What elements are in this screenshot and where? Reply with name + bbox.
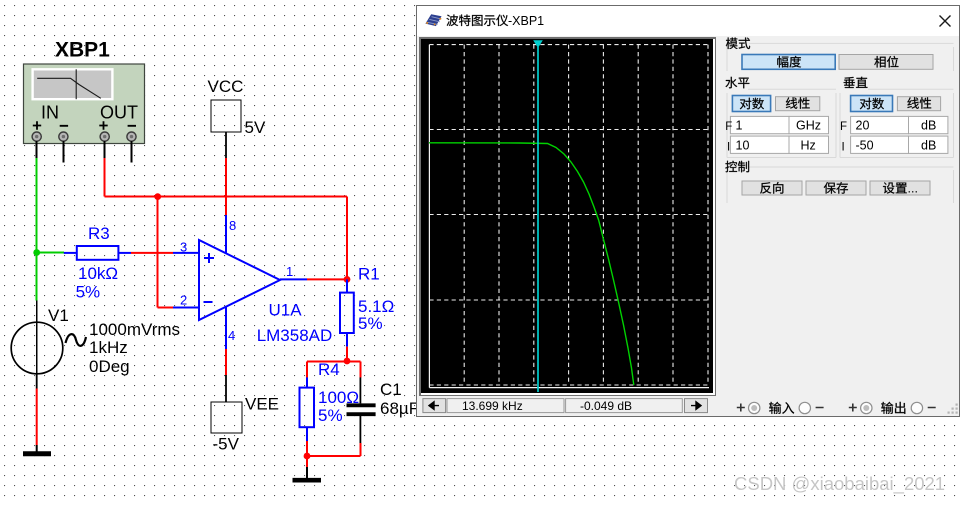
svg-text:XBP1: XBP1 — [55, 39, 110, 62]
wire pin3 — [173, 252, 199, 254]
svg-text:5V: 5V — [245, 118, 266, 137]
wire pin2 — [173, 307, 199, 309]
svg-text:dB: dB — [921, 138, 936, 152]
wire R4 C1 top net — [307, 361, 360, 377]
wire feedback net — [105, 158, 347, 308]
svg-text:4: 4 — [228, 328, 235, 343]
svg-text:0Deg: 0Deg — [89, 357, 130, 376]
AC source V1 — [11, 301, 86, 375]
wire — [64, 252, 77, 254]
capacitor C1 — [347, 377, 376, 443]
svg-text:5.1Ω: 5.1Ω — [358, 297, 394, 316]
svg-text:1: 1 — [286, 264, 293, 279]
svg-text:3: 3 — [180, 240, 187, 255]
node junction — [344, 276, 351, 283]
svg-text:F: F — [725, 121, 732, 133]
instrument window — [416, 0, 962, 6]
svg-text:8: 8 — [229, 218, 236, 233]
svg-text:Hz: Hz — [801, 138, 816, 152]
svg-text:GHz: GHz — [796, 119, 821, 133]
node junction — [154, 193, 161, 200]
value 5.1Ohm 5% — [358, 297, 394, 333]
svg-text:OUT: OUT — [100, 103, 138, 123]
svg-text:-0.049 dB: -0.049 dB — [580, 399, 632, 413]
svg-text:68µF: 68µF — [380, 399, 419, 418]
op-amp U1A — [199, 240, 280, 320]
bode plotter XBP1 — [24, 39, 145, 144]
wire — [346, 347, 348, 361]
ground — [23, 451, 51, 456]
node junction — [33, 249, 40, 256]
svg-text:U1A: U1A — [269, 301, 303, 320]
svg-text:I: I — [842, 142, 845, 154]
wire — [37, 158, 64, 301]
svg-text:10kΩ: 10kΩ — [78, 264, 118, 283]
value 100Ohm 5% — [318, 388, 359, 425]
svg-text:1kHz: 1kHz — [89, 338, 128, 357]
svg-text:2: 2 — [180, 292, 187, 307]
svg-text:R1: R1 — [358, 265, 380, 284]
wire — [36, 374, 38, 452]
svg-text:-XBP1: -XBP1 — [508, 14, 544, 28]
svg-text:1: 1 — [736, 119, 743, 133]
svg-text:5%: 5% — [318, 406, 343, 425]
resistor R3 — [77, 246, 119, 260]
svg-text:-5V: -5V — [213, 435, 240, 454]
svg-text:V1: V1 — [48, 306, 69, 325]
wire — [131, 252, 173, 254]
svg-text:C1: C1 — [380, 380, 402, 399]
node junction — [344, 358, 351, 365]
power VEE — [211, 395, 279, 454]
resistor R1 — [340, 279, 354, 346]
svg-text:13.699 kHz: 13.699 kHz — [462, 399, 523, 413]
value 1000mVrms 1kHz 0Deg — [89, 320, 180, 376]
wire — [306, 467, 308, 478]
svg-text:10: 10 — [736, 138, 750, 152]
ground — [293, 478, 322, 483]
power VCC — [208, 77, 266, 137]
svg-text:CSDN @xiaobaibai_2021: CSDN @xiaobaibai_2021 — [734, 473, 945, 495]
svg-text:dB: dB — [921, 119, 936, 133]
svg-text:20: 20 — [856, 119, 870, 133]
svg-text:R3: R3 — [88, 224, 110, 243]
svg-text:...: ... — [908, 182, 918, 196]
svg-text:VEE: VEE — [245, 395, 279, 414]
wire bottom net — [307, 441, 360, 467]
svg-text:R4: R4 — [318, 360, 340, 379]
value 10kOhm 5% — [76, 264, 119, 302]
node junction — [304, 453, 311, 460]
svg-text:5%: 5% — [358, 314, 383, 333]
wire — [118, 252, 131, 254]
svg-text:5%: 5% — [76, 283, 101, 302]
svg-text:-50: -50 — [856, 138, 874, 152]
wire pin4 net — [225, 307, 227, 402]
svg-text:F: F — [840, 121, 847, 133]
wire — [37, 141, 132, 162]
svg-text:IN: IN — [41, 103, 59, 123]
wire pin1 output — [280, 278, 347, 280]
svg-text:VCC: VCC — [208, 77, 244, 96]
svg-text:1000mVrms: 1000mVrms — [89, 320, 180, 339]
resistor R4 — [300, 377, 315, 441]
wire pin8 net — [225, 132, 227, 253]
svg-text:I: I — [727, 142, 730, 154]
svg-text:LM358AD: LM358AD — [257, 326, 333, 345]
